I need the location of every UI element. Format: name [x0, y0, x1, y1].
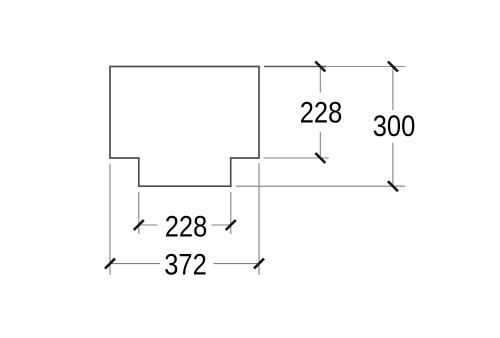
svg-text:372: 372	[164, 248, 207, 281]
svg-text:300: 300	[373, 109, 416, 142]
svg-text:228: 228	[165, 209, 208, 242]
svg-text:228: 228	[300, 95, 343, 128]
